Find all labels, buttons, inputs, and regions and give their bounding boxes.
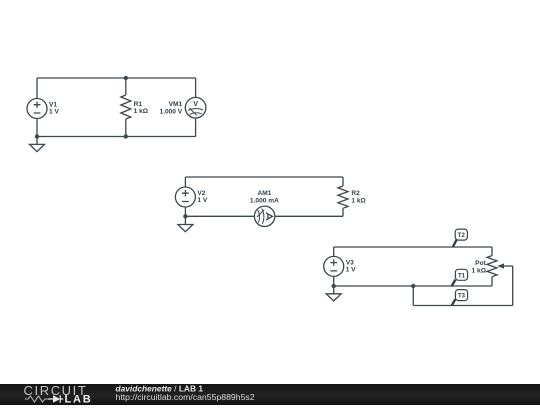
svg-text:AM1: AM1	[257, 190, 271, 197]
svg-text:VM1: VM1	[169, 101, 183, 108]
wire: circuit2 bottom rail right	[275, 215, 343, 217]
wire: circuit2 top rail	[185, 176, 343, 178]
title text	[116, 383, 255, 402]
svg-text:V3: V3	[346, 259, 354, 266]
svg-text:V2: V2	[197, 190, 205, 197]
wire: circuit3 bottom rail	[413, 305, 512, 307]
wire: pot top lead	[491, 247, 493, 256]
ground: circuit3	[326, 286, 341, 301]
node: R1 bottom junction	[124, 134, 128, 138]
wire: resistor R2 top lead	[342, 177, 344, 186]
wire: circuit1 top rail	[37, 77, 196, 79]
wire: circuit2 bottom rail left	[185, 215, 254, 217]
node: middle rail junction	[411, 284, 415, 288]
voltage source V3	[324, 256, 344, 276]
node: V3 ground junction	[332, 284, 336, 288]
potentiometer Pot	[487, 256, 513, 277]
wire: resistor R1 bottom lead	[125, 119, 127, 137]
node: V2 ground junction	[183, 214, 187, 218]
svg-text:V: V	[193, 99, 198, 108]
label V3 1 V	[346, 259, 356, 273]
terminal T1	[452, 269, 468, 286]
svg-text:1.000 mA: 1.000 mA	[250, 197, 279, 204]
svg-text:http://circuitlab.com/can55p88: http://circuitlab.com/can55p889h5s2	[116, 392, 255, 402]
wire: circuit1 bottom rail	[37, 136, 196, 138]
node: R1 top junction	[124, 76, 128, 80]
svg-text:R1: R1	[134, 101, 143, 108]
svg-text:1 V: 1 V	[49, 109, 59, 116]
wire: circuit2 V2 top lead	[184, 177, 186, 187]
label AM1 1.000 mA	[250, 190, 279, 204]
svg-text:R2: R2	[351, 190, 360, 197]
ground: circuit2	[178, 216, 193, 231]
voltage source V2	[175, 187, 195, 207]
svg-text:T3: T3	[458, 294, 466, 300]
label Pot 1 kOhm	[472, 260, 487, 274]
svg-text:T1: T1	[458, 273, 466, 279]
wire: junction drop	[412, 286, 414, 306]
wire: circuit3 middle rail	[334, 285, 492, 287]
label V1 1 V	[49, 101, 59, 115]
CircuitLab logo	[24, 383, 93, 406]
voltmeter VM1	[185, 97, 206, 118]
svg-text:1 V: 1 V	[197, 197, 207, 204]
ammeter AM1	[254, 206, 274, 226]
svg-text:1 kΩ: 1 kΩ	[351, 197, 366, 204]
svg-text:1.000 V: 1.000 V	[159, 108, 182, 115]
wire: circuit3 top rail	[334, 246, 492, 248]
wire: circuit1 V1 bottom lead	[36, 119, 38, 137]
wire: voltmeter VM1 bottom lead	[195, 118, 197, 137]
node: V1 ground junction	[35, 134, 39, 138]
wire: resistor R1 top lead	[125, 78, 127, 95]
wire: circuit1 V1 top lead	[36, 78, 38, 99]
svg-text:1 kΩ: 1 kΩ	[134, 108, 149, 115]
voltage source V1	[27, 99, 47, 119]
wire: circuit2 V2 bottom lead	[184, 207, 186, 216]
svg-text:T2: T2	[458, 233, 466, 239]
label R1 1 kOhm	[134, 101, 149, 115]
resistor R1	[121, 95, 131, 119]
label V2 1 V	[197, 190, 207, 204]
svg-text:Pot: Pot	[475, 260, 486, 267]
ground: circuit1	[30, 137, 45, 152]
svg-text:V1: V1	[49, 101, 57, 108]
terminal T2	[453, 229, 467, 247]
label R2 1 kOhm	[351, 190, 366, 204]
wire: circuit3 V3 bottom lead	[333, 276, 335, 286]
wire: resistor R2 bottom lead	[342, 208, 344, 216]
terminal T3	[452, 290, 468, 306]
svg-text:LAB: LAB	[65, 393, 93, 405]
wire: pot bottom lead	[491, 277, 493, 286]
svg-text:1 V: 1 V	[346, 267, 356, 274]
wire: voltmeter VM1 top lead	[195, 78, 197, 97]
label VM1 1.000 V	[159, 101, 182, 115]
wire: wiper riser	[512, 266, 514, 306]
resistor R2	[338, 186, 348, 208]
svg-text:1 kΩ: 1 kΩ	[472, 267, 487, 274]
wire: circuit3 V3 top lead	[333, 247, 335, 256]
